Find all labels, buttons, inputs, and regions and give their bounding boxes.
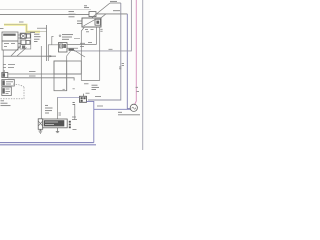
connector W1 box [80, 96, 87, 102]
wire: battery feed lower [8, 78, 74, 81]
connector top stub [83, 94, 85, 97]
label 15 AMP [113, 10, 120, 12]
wire: blue horizontal to alternator [94, 108, 131, 110]
switch S5 inner marks [4, 44, 15, 47]
wire: relay right leads [67, 44, 96, 46]
bracket x51.8 [52, 37, 54, 45]
ignition module text dashes [45, 122, 58, 124]
wire: left drop x3 [2, 50, 4, 73]
wire: battery feed upper [8, 73, 82, 75]
label L1 block bottom-left [1, 101, 11, 106]
alternator B2 circle [130, 104, 137, 111]
arrow on y56 [50, 55, 53, 57]
wire: vertical x66.7 [66, 56, 68, 90]
charger label [6, 82, 13, 84]
label 42 under key switch [100, 29, 102, 31]
wire: relay right lead 2 [67, 47, 78, 49]
wire: connector left lead [58, 96, 80, 98]
wire: U bottom run [81, 80, 99, 82]
ignition module U1 dark bar [44, 120, 65, 126]
wire: diagonal to 20A feed [92, 3, 110, 18]
label S1 Key Switch [69, 12, 76, 17]
wire: blue branch to band [87, 101, 94, 142]
label left small [0, 27, 4, 29]
label 20A fuse [84, 6, 89, 8]
label left of key switch [77, 21, 82, 23]
relay K2 contact right (dark) [63, 44, 66, 48]
label 42 right column [122, 63, 124, 65]
wire: diode to seat line diagonal [67, 51, 71, 56]
fuse F1 on top bus [89, 12, 96, 17]
label T1 spark plug right [72, 117, 77, 130]
relay K2 body [59, 43, 68, 53]
vertical from cluster x41.3 [40, 46, 42, 119]
wire: key switch drop x99 [99, 27, 101, 81]
label 12GA right of relay [80, 43, 85, 46]
switch S5 body upper [2, 32, 18, 41]
label on blue wire top [95, 95, 101, 97]
wire: top bus upper (faint) [0, 8, 91, 10]
wire: vertical x46.5 [46, 25, 48, 61]
battery lower dark bar [2, 88, 4, 93]
relay K2 contact left [60, 44, 63, 48]
battery lower box [2, 87, 12, 96]
wire: fuse to blue drop [96, 13, 127, 15]
terminal marks inside M1 [63, 88, 75, 91]
battery stub up [3, 70, 5, 73]
battery lower marks [6, 89, 11, 94]
ground under spark plug [39, 129, 43, 133]
wire V1: gray vertical to connector [88, 3, 121, 100]
label 12GA above yellow [19, 21, 24, 23]
wire: highlighted lead core [4, 25, 47, 32]
wire: S2 drop diagonal 1 [11, 46, 21, 57]
label 5A gray lead [4, 65, 16, 68]
label 20 AMP [110, 0, 117, 2]
battery B1 top connector [2, 73, 8, 78]
label S2 PTO Switch [34, 34, 41, 41]
wire: key switch top right diagonal [101, 14, 106, 18]
contact block K1e (dark) [22, 46, 25, 49]
wire: key switch drop x97 [95, 27, 97, 45]
bottom blue band line 2 [0, 144, 96, 146]
battery B1 dark cell [2, 73, 5, 77]
wire: module right drop [74, 104, 76, 120]
wire V5: right gray vertical [142, 0, 144, 150]
charger dark bar [2, 80, 4, 85]
label 12GA upper [29, 70, 36, 72]
wire: relay left lead with corner [48, 45, 58, 61]
wire: key switch diagonal drop [81, 27, 84, 81]
wire: y28 link [37, 27, 47, 29]
switch S5 label bar [3, 34, 16, 36]
bottom blue band line 1 [0, 142, 94, 144]
contact block K1a [21, 34, 27, 39]
label = marks x120 [119, 67, 121, 69]
wire: seat switch line y56 [3, 55, 56, 57]
coil E1 label [45, 105, 53, 113]
wire: highlighted harness lead (yellow) [4, 25, 40, 32]
label above relay line1 [62, 35, 73, 40]
wire: S5 to contact cluster [18, 35, 21, 47]
wire: 20A feed top [110, 2, 121, 4]
switch S5 body lower [2, 41, 18, 50]
wire: top bus lower [0, 13, 89, 15]
label under module left [59, 113, 62, 115]
circle tick above relay [59, 35, 61, 37]
wire V4: pink vertical [135, 0, 137, 105]
module ground [56, 132, 59, 133]
dashed enclosure [1, 84, 25, 99]
module M1 box outline tall [54, 61, 67, 91]
label W1 block [92, 85, 100, 89]
contact block K1a X [21, 34, 27, 39]
connector W1 dark cells [81, 97, 86, 102]
label on y44 wire [88, 42, 92, 44]
wire V3: gray vertical from top edge [74, 0, 131, 51]
charger box [2, 80, 15, 87]
label 12GA lower [29, 75, 36, 77]
diode CR1 dark element [69, 49, 75, 51]
contact block K1c [21, 40, 26, 45]
label B2 Alternator Stator [118, 112, 140, 115]
module ground stub [57, 128, 59, 132]
label above connector [86, 92, 90, 94]
wire V2: blue vertical to alternator [127, 14, 130, 109]
terminal marks x73.5 [73, 103, 75, 105]
label T.B [30, 32, 35, 34]
key switch lever [84, 20, 96, 27]
relay K2 contact X [60, 44, 63, 48]
contact block K1b [27, 34, 31, 38]
label above blue horizontal [97, 105, 103, 107]
label beside pink [136, 87, 140, 91]
contact block K1d [26, 41, 30, 45]
wire: S2 drop diagonal 2 [17, 48, 27, 57]
alternator squiggle [132, 107, 136, 109]
spark plug P1 box [38, 119, 43, 130]
label key leads [85, 30, 94, 32]
key switch S1 body [82, 18, 101, 27]
label above y51 wire [109, 48, 113, 50]
key switch S1 inner box [95, 19, 101, 25]
wire: diagonal down right [73, 50, 85, 58]
ignition module U1 outline [43, 119, 67, 128]
label under U-wire [84, 83, 89, 85]
module terminals [69, 121, 71, 128]
module M1 box outline wide [54, 61, 81, 74]
wire: coil drop x57.5 [57, 97, 59, 119]
contact cluster S2 outline [20, 33, 31, 49]
label fragment y38.5 [74, 38, 80, 40]
key switch S1 inner dark [96, 21, 99, 24]
spark plug P1 X [38, 121, 43, 126]
